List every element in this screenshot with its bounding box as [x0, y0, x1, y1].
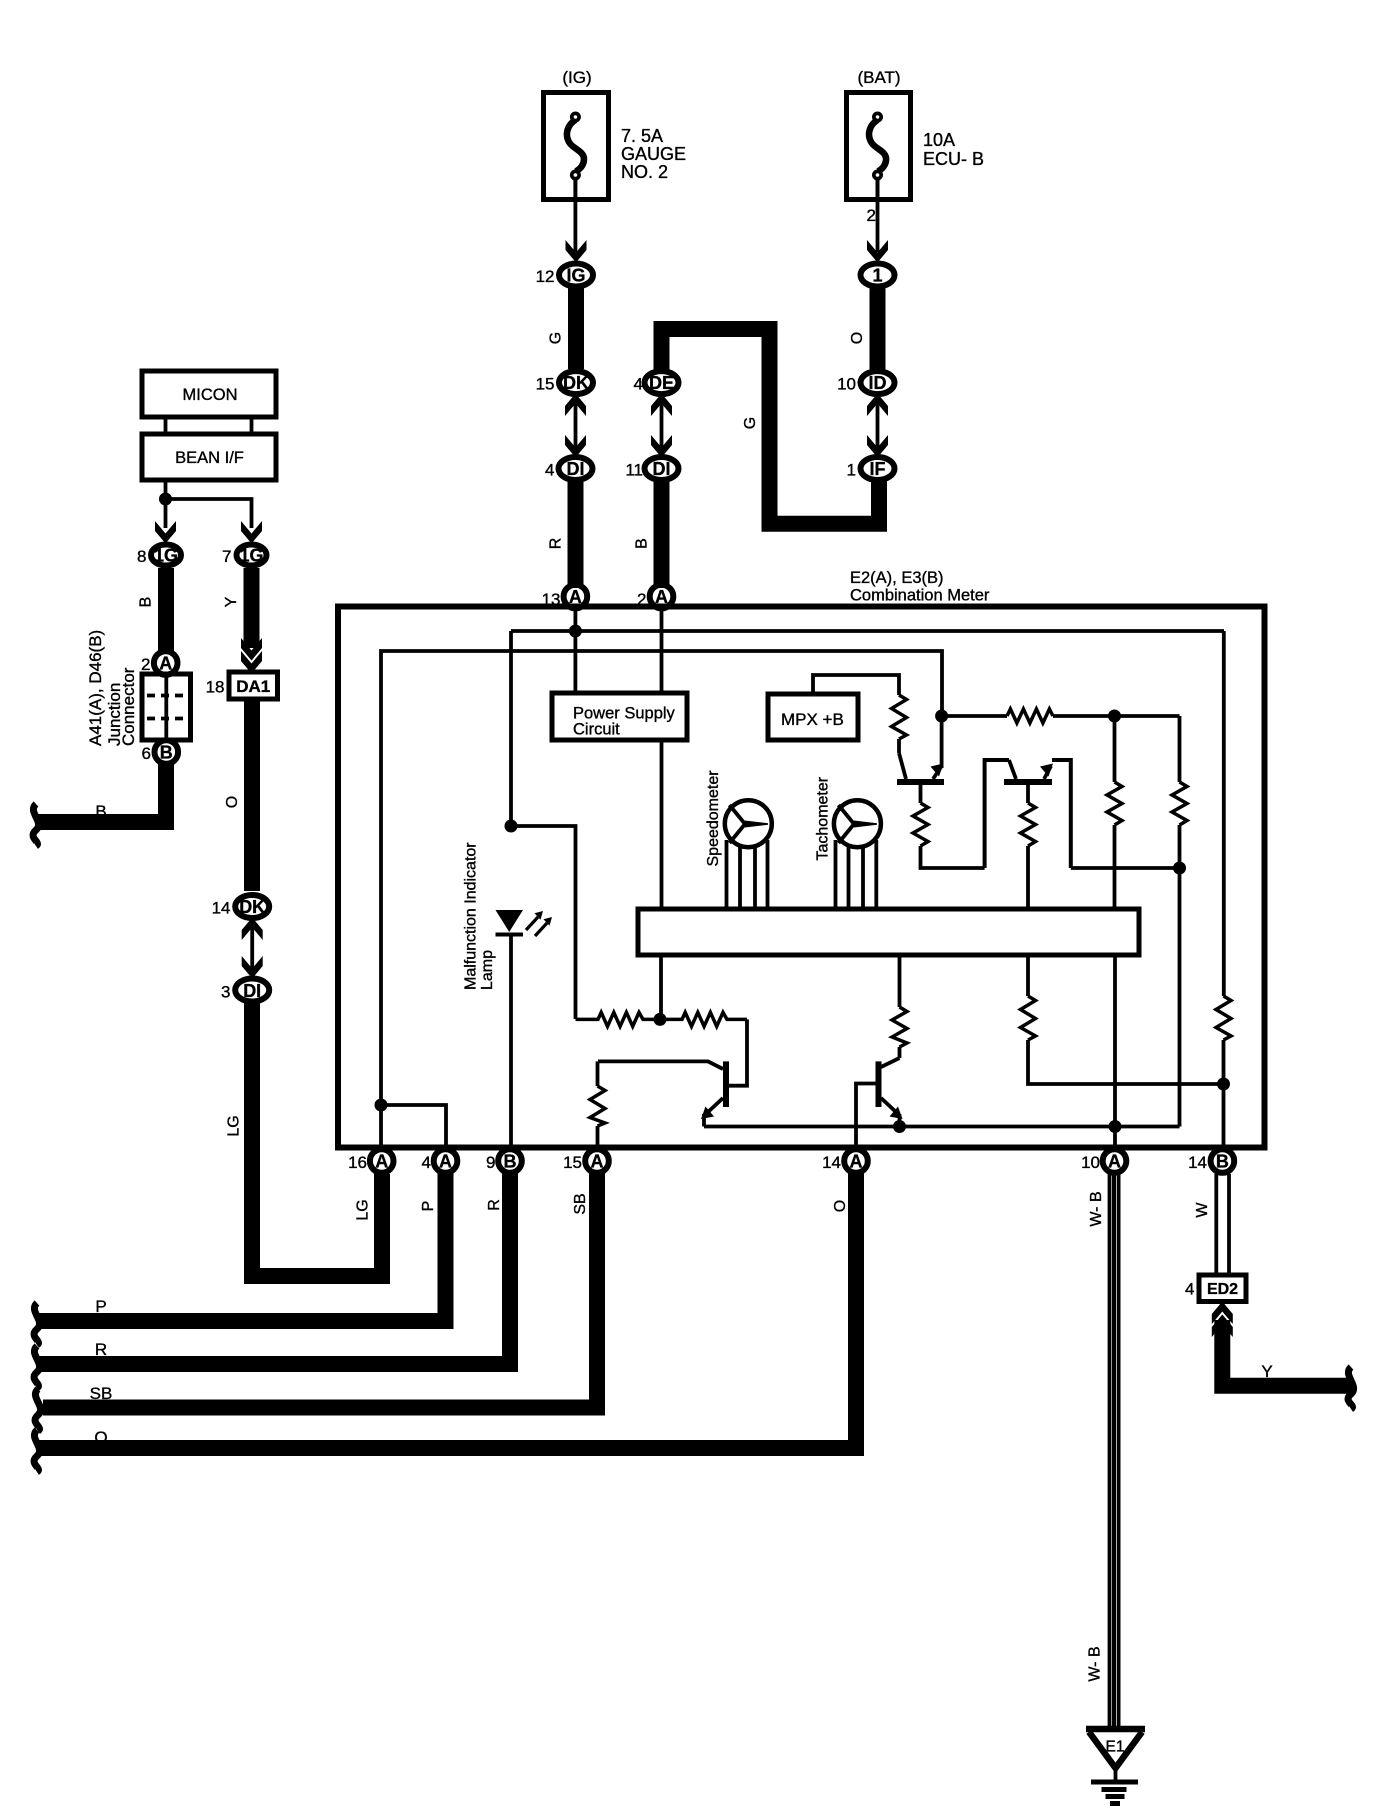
svg-text:DI: DI	[243, 981, 261, 1001]
wire break squiggle SB	[35, 1389, 41, 1431]
node dot Q1 collector x942 y716	[935, 710, 948, 723]
svg-text:10: 10	[1081, 1153, 1100, 1172]
svg-text:10A: 10A	[923, 130, 955, 150]
svg-text:4: 4	[1185, 1280, 1194, 1299]
block MICON	[142, 371, 276, 417]
svg-text:A: A	[1108, 1152, 1121, 1172]
wire R: 9 B to break left	[39, 1173, 510, 1364]
svg-text:W- B: W- B	[1087, 1646, 1104, 1681]
wire below-bar x1028 to y1084 bus	[1026, 957, 1030, 996]
connector oval 4 DI	[559, 457, 593, 480]
connector oval 11 DI	[645, 457, 679, 480]
svg-text:MICON: MICON	[183, 386, 238, 404]
wire Y: from ED2 arrows down right to break	[1222, 1320, 1352, 1386]
svg-text:7. 5A: 7. 5A	[621, 126, 663, 146]
combination meter outer box E2(A) E3(B)	[338, 607, 1265, 1148]
svg-text:2: 2	[637, 590, 646, 609]
svg-text:B: B	[95, 802, 106, 821]
wire x511 from bus down to LED node	[509, 631, 513, 826]
double arrow up into ED2	[1212, 1302, 1233, 1338]
svg-text:Y: Y	[1261, 1362, 1272, 1381]
svg-text:15: 15	[563, 1153, 582, 1172]
transistor Q2	[985, 760, 1071, 868]
MPX +B box	[768, 694, 858, 740]
wire Q2 emitter: down resistor	[1026, 782, 1030, 803]
resistor R-q2e vertical x1028	[1021, 803, 1036, 846]
svg-text:W- B: W- B	[1088, 1191, 1105, 1226]
connector oval 2 A	[154, 651, 178, 675]
wire collector Q1 up to node	[940, 716, 944, 768]
wire 15A resistor branch	[596, 1061, 600, 1086]
svg-text:NO. 2: NO. 2	[621, 162, 668, 182]
svg-text:14: 14	[212, 899, 231, 918]
svg-text:14: 14	[1188, 1153, 1207, 1172]
wire fuse BAT pin 2 to connector 1	[876, 200, 880, 252]
resistor row y716: lead	[942, 714, 1007, 718]
resistor R-q1e vertical x920.5	[913, 803, 928, 846]
svg-text:DE: DE	[649, 373, 674, 393]
svg-text:A: A	[159, 654, 172, 674]
resistor R-h1 horizontal	[576, 1012, 661, 1026]
svg-text:DK: DK	[239, 897, 265, 917]
resistor R-c1 vertical x1114.5	[1107, 782, 1122, 825]
resistor R-c2 vertical x1179.5	[1172, 782, 1187, 825]
wire right edge column x1224	[1222, 631, 1226, 996]
wire SB: 15 A to break left	[43, 1173, 597, 1408]
svg-text:O: O	[832, 1200, 849, 1212]
connector oval 8 1G	[151, 545, 181, 566]
connector oval 10 ID	[861, 371, 895, 394]
connector oval 2 A on meter top	[650, 585, 674, 609]
svg-text:4: 4	[545, 461, 554, 480]
wire bar to Q4 collector resistor	[898, 957, 902, 1007]
wire G: 12 IG to 15 DK	[568, 288, 584, 369]
svg-text:Malfunction Indicator: Malfunction Indicator	[463, 842, 480, 990]
wire O: DA1 to 14 DK	[244, 699, 260, 891]
transistor Q1	[897, 739, 944, 782]
wire W double from 14 B to ED2	[1216, 1174, 1229, 1275]
lead to node x1114.5	[1053, 714, 1180, 718]
resistor R-top horizontal	[1007, 709, 1053, 723]
wire column x1114.5 down	[1113, 716, 1117, 782]
svg-text:A: A	[591, 1152, 604, 1172]
svg-text:DA1: DA1	[236, 677, 270, 696]
svg-text:13: 13	[542, 590, 561, 609]
wire to Q3 collector	[729, 1019, 747, 1085]
wire fuse IG to connector 12 IG	[574, 200, 578, 252]
svg-text:P: P	[420, 1201, 437, 1212]
svg-text:1G: 1G	[239, 546, 263, 566]
svg-text:2: 2	[141, 655, 150, 674]
wire PSU down to gauge bar	[660, 740, 664, 909]
junction connector A41(A) D46(B)	[142, 674, 191, 740]
node dot x1223.5 y1084	[1217, 1078, 1230, 1091]
svg-text:11: 11	[625, 461, 643, 480]
svg-text:B: B	[504, 1152, 517, 1172]
node junction below BEAN I/F	[159, 493, 172, 506]
wire bus top y631 from x511 to x1224	[511, 629, 1224, 633]
resistor R-q4c vertical x899.5	[892, 1007, 907, 1047]
speedometer gauge	[725, 800, 772, 909]
connector oval 15 DK	[559, 371, 593, 394]
wire 2 A down to Power Supply Circuit	[660, 611, 664, 693]
node dot x1114.5 y716	[1108, 710, 1121, 723]
connector oval 4 A meter bottom	[434, 1149, 458, 1173]
wire Q2 right to node x1179.5	[1071, 866, 1180, 870]
wire x1179.5 down to emitter bus corner	[1178, 868, 1182, 1127]
wire LED to 9 B	[509, 936, 513, 1150]
svg-text:ID: ID	[869, 373, 887, 393]
wire Y: 7 1G to 18 DA1	[244, 568, 260, 648]
svg-text:DK: DK	[563, 373, 589, 393]
emitter bus y1126.5	[704, 1125, 1180, 1129]
svg-text:A: A	[439, 1152, 452, 1172]
svg-text:O: O	[94, 1428, 107, 1447]
resistor R-mpx vertical x899	[892, 695, 907, 739]
svg-text:(IG): (IG)	[562, 68, 591, 87]
svg-text:IG: IG	[566, 266, 585, 286]
arrows between 10 ID and 1 IF	[867, 394, 888, 458]
connector oval 7 1G	[237, 545, 267, 566]
svg-text:1G: 1G	[154, 546, 178, 566]
svg-text:8: 8	[137, 547, 146, 566]
svg-text:R: R	[486, 1199, 503, 1211]
svg-text:R: R	[548, 538, 565, 550]
svg-text:12: 12	[536, 267, 555, 286]
resistor R-15a vertical x597.5	[590, 1086, 605, 1126]
connector oval 4 DE	[645, 371, 679, 394]
svg-text:B: B	[1216, 1152, 1229, 1172]
block BEAN I/F	[142, 434, 276, 480]
connector box 18 DA1	[229, 672, 278, 699]
svg-text:Circuit: Circuit	[573, 721, 620, 739]
node dot x1179.5 y868	[1173, 862, 1186, 875]
wire break squiggle O	[34, 1430, 40, 1472]
svg-text:Combination Meter: Combination Meter	[850, 587, 990, 605]
connector oval 3 DI	[235, 979, 269, 1002]
fuse 7.5A GAUGE NO.2 (IG)	[544, 93, 609, 201]
svg-text:Tachometer: Tachometer	[815, 776, 832, 860]
svg-text:B: B	[634, 538, 651, 549]
svg-text:15: 15	[536, 375, 555, 394]
connector oval 14 B meter bottom	[1211, 1149, 1235, 1173]
svg-text:A41(A), D46(B): A41(A), D46(B)	[86, 630, 105, 746]
wire break squiggle R	[34, 1346, 40, 1388]
svg-text:(BAT): (BAT)	[857, 68, 900, 87]
arrows between 15 DK and 4 DI	[565, 394, 586, 458]
arrows between 14 DK and 3 DI	[242, 918, 263, 979]
svg-text:1: 1	[847, 461, 856, 480]
node dot x1115 y1126.5	[1109, 1120, 1122, 1133]
wire MPX +B up over to resistor	[813, 675, 899, 695]
wire right column x1179.5 down	[1178, 716, 1182, 782]
wire P: 4 A to break left	[39, 1173, 446, 1321]
gauge needle drive bar	[638, 909, 1139, 955]
wire R: 4 DI to 13 A	[568, 482, 584, 588]
svg-text:9: 9	[486, 1153, 495, 1172]
wire B: 11 DI to 2 A	[654, 482, 670, 588]
svg-text:IF: IF	[870, 459, 886, 479]
svg-text:G: G	[742, 417, 759, 429]
node dot LED branch	[505, 820, 518, 833]
LED malfunction indicator lamp	[496, 910, 553, 936]
resistor R-h2 horizontal	[660, 1012, 747, 1026]
svg-text:O: O	[849, 332, 866, 344]
resistor R-b2 vertical x1223.5	[1216, 996, 1231, 1040]
svg-text:16: 16	[348, 1153, 367, 1172]
connector oval 14 DK	[235, 895, 269, 918]
connector oval 1	[861, 264, 895, 287]
wire branch to 7 1G	[166, 499, 252, 528]
wire PSU line below bar to resistor node	[659, 957, 663, 1019]
transistor Q3	[598, 1061, 726, 1126]
svg-text:B: B	[160, 743, 173, 763]
svg-text:BEAN I/F: BEAN I/F	[175, 449, 244, 467]
svg-text:O: O	[224, 796, 241, 808]
svg-text:B: B	[138, 597, 155, 608]
wire break squiggle P	[34, 1303, 40, 1345]
svg-text:A: A	[655, 587, 668, 607]
tachometer gauge	[834, 800, 881, 909]
svg-text:4: 4	[634, 375, 643, 394]
wire break squiggle Y	[1348, 1367, 1354, 1409]
svg-text:P: P	[95, 1297, 106, 1316]
connector oval 14 A meter bottom	[844, 1149, 868, 1173]
wire x1115 below bar to 10 A	[1113, 957, 1117, 1150]
connector oval 15 A meter bottom	[585, 1149, 609, 1173]
svg-text:ED2: ED2	[1207, 1281, 1238, 1298]
wire BEAN I/F to 8 1G	[164, 480, 168, 528]
svg-text:LG: LG	[226, 1115, 243, 1136]
node dot 13A bus	[569, 625, 582, 638]
connector oval 10 A meter bottom	[1103, 1149, 1127, 1173]
svg-text:Lamp: Lamp	[479, 950, 496, 990]
ground E1	[1086, 1729, 1145, 1804]
svg-text:E1: E1	[1106, 1739, 1125, 1756]
svg-text:18: 18	[206, 678, 225, 697]
wire break squiggle B	[33, 804, 39, 846]
svg-text:MPX +B: MPX +B	[781, 710, 844, 729]
svg-text:Speedometer: Speedometer	[705, 770, 722, 867]
fuse 10A ECU-B (BAT)	[847, 93, 911, 201]
wire 13 A down to Power Supply Circuit	[574, 611, 578, 693]
svg-text:DI: DI	[567, 459, 585, 479]
transistor Q4	[856, 1058, 903, 1150]
connector oval 9 B meter bottom	[498, 1149, 522, 1173]
svg-text:10: 10	[837, 375, 856, 394]
power supply circuit box	[552, 693, 687, 740]
node dot Q4 emitter y1126.5	[893, 1120, 906, 1133]
wire B: 8 1G to 2 A	[158, 568, 174, 652]
wire G loop: DE up over and down to IF	[662, 329, 880, 524]
connector oval 12 IG	[559, 264, 593, 287]
svg-text:W: W	[1194, 1202, 1211, 1218]
svg-text:A: A	[569, 587, 582, 607]
svg-text:E2(A), E3(B): E2(A), E3(B)	[850, 569, 944, 587]
wire 16A branch: x381 node to 4A	[375, 1099, 388, 1112]
svg-text:Connector: Connector	[119, 667, 138, 746]
wire LED node right and down to resistor row	[511, 826, 576, 1019]
wire O: 14 A to break left	[39, 1173, 856, 1448]
wire O: 1 to 10 ID	[870, 288, 886, 369]
svg-text:DI: DI	[653, 459, 671, 479]
arrows between 4 DE and 11 DI	[651, 394, 672, 458]
svg-text:Y: Y	[223, 596, 240, 607]
svg-text:1: 1	[872, 266, 882, 286]
svg-text:ECU- B: ECU- B	[923, 149, 984, 169]
wires MICON to BEAN I/F	[164, 417, 168, 434]
wire Q1 emitter chain: down resistor right up	[919, 782, 923, 803]
svg-text:2: 2	[867, 206, 876, 225]
svg-text:A: A	[375, 1152, 388, 1172]
svg-text:LG: LG	[355, 1199, 372, 1220]
node dot resistor row x660 y1019	[654, 1013, 667, 1026]
connector oval 6 B	[155, 740, 179, 764]
svg-text:SB: SB	[90, 1384, 113, 1403]
wire inner frame y651 x381-x942	[381, 651, 942, 1105]
connector oval 13 A on meter top	[564, 585, 588, 609]
wire LG: 3 DI down right and up to 16 A	[252, 1002, 382, 1276]
svg-text:14: 14	[822, 1153, 841, 1172]
wire B to break (left)	[38, 764, 166, 822]
svg-text:A: A	[850, 1152, 863, 1172]
svg-text:GAUGE: GAUGE	[621, 144, 686, 164]
svg-text:G: G	[548, 332, 565, 344]
wire W-B triple from 10 A to E1	[1110, 1174, 1119, 1727]
connector oval 16 A meter bottom	[370, 1149, 394, 1173]
svg-text:7: 7	[222, 547, 231, 566]
svg-text:R: R	[95, 1340, 107, 1359]
double arrow into DA1	[241, 638, 262, 674]
svg-text:3: 3	[221, 983, 230, 1002]
svg-text:6: 6	[142, 744, 151, 763]
resistor R-b1 vertical x1028	[1021, 996, 1036, 1040]
connector oval 1 IF	[861, 457, 895, 480]
connector box 4 ED2	[1199, 1275, 1246, 1302]
svg-text:4: 4	[422, 1153, 431, 1172]
svg-text:SB: SB	[572, 1193, 589, 1214]
